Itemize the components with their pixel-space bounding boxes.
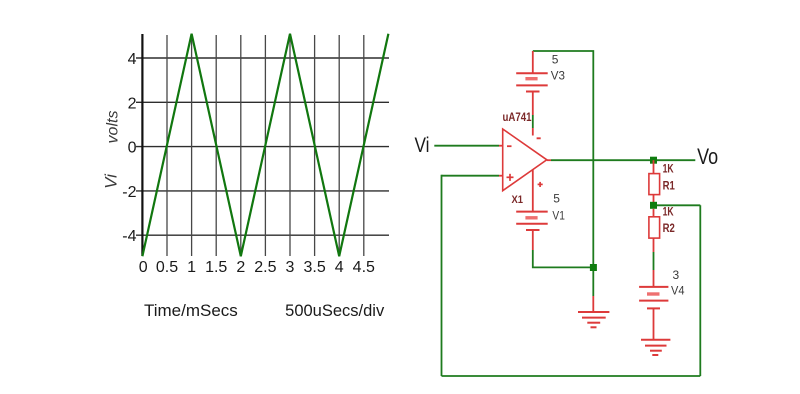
junction node between R1 R2 — [650, 202, 657, 209]
svg-text:R2: R2 — [663, 223, 675, 235]
horizontal grid line 0V — [136, 146, 389, 148]
battery V1 — [516, 212, 548, 250]
svg-text:Vo: Vo — [697, 144, 718, 169]
op-amp top supply pin — [532, 128, 534, 136]
resistor R1 stub bottom — [653, 195, 655, 206]
svg-text:3.5: 3.5 — [303, 259, 325, 276]
svg-text:V3: V3 — [551, 69, 566, 83]
horizontal grid line -4V — [136, 234, 389, 236]
op-amp bottom pin + sign — [538, 183, 543, 185]
resistor R2 body — [649, 217, 660, 238]
svg-text:0: 0 — [139, 259, 148, 276]
wire V3 top to right rail — [533, 51, 594, 296]
wire divider tap to right vertical — [654, 204, 701, 206]
triangle wave Vi trace — [142, 34, 388, 256]
horizontal grid line +2V — [136, 101, 389, 103]
svg-text:X1: X1 — [512, 194, 524, 206]
svg-text:-2: -2 — [122, 184, 136, 201]
battery V4 — [639, 270, 668, 340]
svg-text:R1: R1 — [663, 180, 676, 192]
wire bottom horizontal — [442, 375, 701, 377]
svg-text:4.5: 4.5 — [353, 259, 375, 276]
svg-text:volts: volts — [105, 111, 122, 144]
svg-text:uA741: uA741 — [503, 110, 532, 124]
wire output to Vo — [551, 159, 695, 161]
svg-text:2: 2 — [128, 95, 137, 112]
svg-text:1K: 1K — [663, 164, 675, 176]
wire rail into ground — [592, 296, 594, 312]
svg-text:3: 3 — [286, 259, 295, 276]
svg-text:5: 5 — [553, 191, 560, 205]
y tick labels — [122, 51, 136, 245]
wire right vertical — [699, 205, 701, 376]
svg-text:Vi: Vi — [102, 173, 121, 189]
svg-text:V1: V1 — [552, 208, 565, 222]
wire V1 bottom to rail junction — [533, 250, 594, 267]
svg-text:Time/mSecs: Time/mSecs — [144, 301, 238, 320]
svg-text:1: 1 — [187, 259, 196, 276]
op-amp bottom supply pin — [532, 170, 534, 212]
svg-text:Vi: Vi — [415, 134, 430, 157]
op-amp - input sign — [507, 145, 512, 147]
x tick labels — [139, 259, 375, 276]
svg-text:1K: 1K — [663, 206, 675, 218]
op-amp U1 input pin stubs — [499, 145, 503, 147]
ground under V4 — [641, 340, 670, 355]
wire R2 to V4 — [653, 238, 655, 252]
wire feedback to + input — [442, 175, 500, 177]
wire Vi to op-amp - input — [434, 145, 499, 147]
junction node at output — [650, 157, 657, 164]
svg-text:V4: V4 — [671, 284, 685, 298]
op-amp top pin - sign — [537, 137, 541, 139]
op-amp output stub — [547, 159, 551, 161]
resistor R1 stub top — [653, 160, 655, 173]
svg-text:0.5: 0.5 — [156, 259, 178, 276]
svg-text:5: 5 — [552, 53, 559, 67]
svg-text:4: 4 — [128, 51, 137, 68]
svg-text:0: 0 — [128, 140, 137, 157]
horizontal grid line +4V — [136, 57, 389, 59]
svg-text:1.5: 1.5 — [205, 259, 227, 276]
battery V3 — [516, 51, 548, 92]
resistor R1 body — [649, 174, 660, 195]
svg-text:2: 2 — [236, 259, 245, 276]
y axis — [141, 34, 143, 256]
svg-text:-4: -4 — [122, 228, 136, 245]
svg-text:500uSecs/div: 500uSecs/div — [285, 302, 385, 320]
vertical grid lines t=0.5..4.5 — [167, 35, 364, 256]
svg-text:2.5: 2.5 — [254, 259, 276, 276]
svg-text:3: 3 — [673, 268, 680, 282]
svg-text:4: 4 — [335, 259, 344, 276]
wire left vertical — [441, 175, 443, 376]
horizontal grid line -2V — [136, 190, 389, 192]
op-amp + input sign — [507, 176, 514, 178]
resistor R2 stub top — [653, 209, 655, 217]
junction node at rail — [590, 264, 597, 271]
op-amp X1 triangle — [503, 129, 547, 191]
ground at supply rail — [578, 312, 609, 327]
